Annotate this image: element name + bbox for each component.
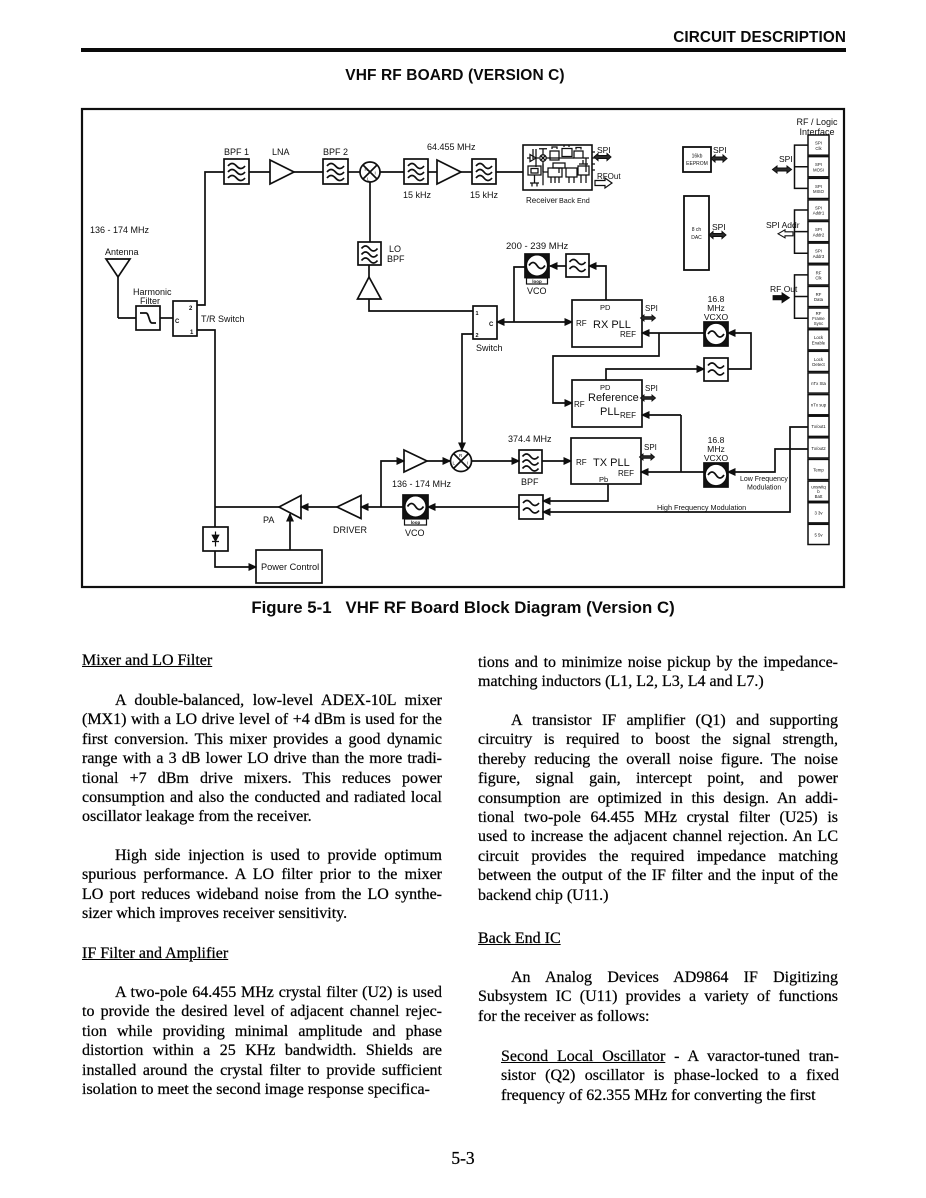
svg-text:5 5v: 5 5v [814, 532, 823, 537]
svg-text:Sync: Sync [814, 321, 824, 326]
SPI group bracket [795, 145, 809, 188]
SPI bus arrow (TX PLL) [640, 443, 657, 460]
pin nTx Sta [808, 373, 829, 393]
wire mixer MX1 to LO BPF [369, 182, 371, 242]
svg-text:VCXO: VCXO [704, 453, 729, 463]
svg-text:SPI: SPI [645, 384, 658, 393]
svg-text:REF: REF [620, 330, 636, 339]
SPI bus arrow (RX PLL) [641, 304, 658, 321]
wire REF rail junction down to TX REF [680, 415, 682, 472]
VCXO Y1 16.8 MHz (RX) [704, 322, 728, 346]
TX band-pass filter BPF3 [519, 450, 542, 487]
svg-text:VCO: VCO [405, 528, 425, 538]
svg-text:15 kHz: 15 kHz [403, 190, 432, 200]
high frequency modulation wire from Tx/out1 pin [543, 427, 808, 512]
T/R switch S1 [173, 301, 245, 336]
svg-text:BPF 1: BPF 1 [224, 147, 249, 157]
svg-text:136 - 174 MHz: 136 - 174 MHz [90, 225, 150, 235]
wire TX PLL PD to TX loop filter [543, 484, 608, 501]
PA power amplifier [263, 496, 301, 526]
pin Lock Enable [808, 330, 829, 350]
wire T/R pin2 up to BPF1 [197, 172, 224, 305]
wire Reference PLL PD to loop filter [606, 369, 704, 380]
svg-text:RF: RF [816, 270, 822, 275]
crystal filter U2 15 kHz [403, 159, 432, 200]
svg-text:R: R [459, 453, 463, 458]
RX loop filter [566, 254, 589, 277]
svg-text:Lock: Lock [814, 357, 824, 362]
RFOut arrow (receiver back end) [595, 172, 621, 188]
svg-text:Filter: Filter [140, 296, 160, 306]
band-pass filter BPF2 [323, 147, 348, 184]
wire to crystal filter U25 [461, 171, 472, 173]
EEPROM U3 [683, 147, 711, 172]
svg-text:PD: PD [600, 383, 611, 392]
wire reference loop filter to VCXO1 [728, 333, 751, 369]
svg-text:nTx sup: nTx sup [811, 403, 827, 408]
wire U25 to receiver back end [496, 171, 523, 173]
svg-text:3 3v: 3 3v [814, 511, 823, 516]
wire REF node to Reference PLL RF [553, 333, 659, 403]
pin Lock Detect [808, 351, 829, 371]
svg-text:15 kHz: 15 kHz [470, 190, 499, 200]
right column [478, 653, 838, 692]
pin Temp [808, 459, 829, 479]
svg-text:Enable: Enable [812, 341, 826, 346]
svg-text:RF / Logic: RF / Logic [796, 117, 838, 127]
svg-text:SPI: SPI [815, 162, 822, 167]
wire junction up to VCO1 [514, 267, 525, 322]
svg-text:MOSI: MOSI [813, 167, 824, 172]
svg-text:Batt: Batt [815, 494, 823, 499]
left column [82, 651, 442, 670]
pin RF Clk [808, 265, 829, 285]
svg-text:Data: Data [814, 297, 824, 302]
label 16.8 MHz VCXO (RX) [704, 294, 729, 322]
svg-text:L: L [367, 177, 370, 182]
wire mixer to 15kHz filter [380, 171, 404, 173]
svg-text:RF: RF [576, 458, 587, 467]
LO buffer amplifier [358, 277, 382, 299]
svg-text:Tx/out1: Tx/out1 [811, 424, 826, 429]
pin nTx sup [808, 395, 829, 415]
amplifier LNA [270, 147, 294, 184]
VCO1 (RX) [525, 254, 549, 296]
svg-text:LNA: LNA [272, 147, 290, 157]
DIAGRAM SVG [0, 0, 926, 600]
svg-text:C: C [175, 319, 180, 325]
wire LNA to BPF2 [294, 171, 323, 173]
SPI Addr arrow [766, 220, 800, 238]
svg-text:TX PLL: TX PLL [593, 457, 630, 469]
svg-text:C: C [489, 322, 494, 328]
wire BPF1 to LNA [249, 171, 270, 173]
svg-text:8 ch: 8 ch [692, 227, 702, 233]
power control module [256, 550, 322, 583]
IF amplifier Q1 [437, 160, 461, 184]
svg-text:PLL: PLL [600, 406, 620, 418]
detector diode CR1 [203, 527, 228, 551]
svg-text:1: 1 [476, 311, 479, 317]
pin 5.5v [808, 524, 829, 544]
wire TX mixer to BPF3 [472, 460, 520, 462]
svg-text:VCO: VCO [527, 286, 547, 296]
svg-text:LO: LO [389, 244, 401, 254]
svg-text:Tx/out2: Tx/out2 [811, 446, 826, 451]
svg-text:Detect: Detect [812, 362, 825, 367]
svg-text:64.455 MHz: 64.455 MHz [427, 142, 476, 152]
wire rail down to detector diode [214, 507, 216, 527]
TX mixer MX2 [451, 451, 472, 472]
svg-text:Receiver: Receiver [526, 196, 558, 205]
svg-text:Antenna: Antenna [105, 247, 139, 257]
wire power control to PA bias [289, 514, 291, 550]
page number [0, 1148, 926, 1169]
wire T/R pin1 down to PA line [197, 330, 215, 507]
LO band-pass filter [358, 242, 405, 265]
svg-text:I: I [467, 461, 468, 466]
wire BPF3 to TX PLL RF [542, 460, 571, 462]
wire RX PLL PD to loop filter [589, 266, 606, 300]
svg-text:SPI: SPI [645, 304, 658, 313]
svg-text:Lock: Lock [814, 335, 824, 340]
svg-text:1: 1 [190, 330, 194, 336]
svg-text:Clk: Clk [815, 146, 822, 151]
harmonic filter FL1 [133, 287, 172, 330]
wire PA to antenna rail [215, 506, 279, 508]
TX buffer amplifier [404, 450, 427, 472]
LO switch S2 [473, 306, 503, 353]
SPI bus arrow (Reference PLL) [641, 384, 658, 401]
SPI bus arrow (interface) [773, 154, 793, 173]
page title [0, 67, 910, 85]
svg-text:nTx Sta: nTx Sta [811, 381, 826, 386]
SPI bus arrow (DAC) [709, 222, 726, 239]
svg-text:BPF 2: BPF 2 [323, 147, 348, 157]
TX PLL U8 [571, 438, 641, 484]
wire driver to PA [301, 506, 337, 508]
pin SPI MOSI [808, 157, 829, 177]
wire to IF amp [428, 171, 437, 173]
TX chain: wire switch pin2 to TX mixer [462, 334, 473, 450]
wire VCO2 to driver [361, 506, 403, 508]
RF group bracket [795, 275, 809, 318]
svg-text:374.4 MHz: 374.4 MHz [508, 434, 552, 444]
svg-text:SPI: SPI [815, 205, 822, 210]
pin SPI Addr3 [808, 243, 829, 263]
svg-text:Low Frequency: Low Frequency [740, 476, 788, 483]
svg-text:16kb: 16kb [692, 154, 703, 160]
figure caption [0, 598, 926, 618]
Reference PLL U7 [572, 380, 642, 427]
svg-text:136 - 174 MHz: 136 - 174 MHz [392, 479, 452, 489]
reference loop filter [704, 358, 728, 381]
svg-text:SPI: SPI [815, 184, 822, 189]
svg-text:High Frequency Modulation: High Frequency Modulation [657, 503, 746, 512]
pin RF Frame Sync [808, 308, 829, 328]
svg-text:REF: REF [618, 469, 634, 478]
svg-text:loop: loop [532, 279, 542, 284]
RF Out arrow [770, 284, 798, 303]
pin SPI Addr2 [808, 222, 829, 242]
svg-text:DRIVER: DRIVER [333, 525, 368, 535]
RF / Logic interface header [796, 117, 838, 137]
wire VCXO2 to TX PLL REF [641, 471, 704, 473]
wire diode to power control [215, 551, 256, 567]
TX buffer amp input wire [381, 461, 404, 507]
svg-text:RF: RF [576, 319, 587, 328]
low frequency modulation wire from Tx/out2 pin [728, 449, 808, 472]
label low frequency modulation [740, 476, 788, 492]
wire BPF2 to mixer MX1 [348, 171, 360, 173]
receiver back end IC U11 [523, 145, 595, 205]
antenna ANT1 [105, 247, 139, 318]
RX PLL U6 [572, 300, 642, 347]
pin Tx/out2 [808, 438, 829, 458]
interface pin boxes column [808, 135, 829, 545]
svg-text:T/R Switch: T/R Switch [201, 314, 245, 324]
pin SPI Addr1 [808, 200, 829, 220]
svg-text:PD: PD [600, 303, 611, 312]
svg-text:SPI: SPI [779, 154, 793, 164]
pin 3.3v [808, 503, 829, 523]
svg-text:RF: RF [816, 292, 822, 297]
pin Tx/out1 [808, 416, 829, 436]
svg-text:RF Out: RF Out [770, 284, 798, 294]
wire Reference PLL REF input [642, 414, 681, 416]
header rule [81, 48, 846, 52]
wire antenna to harmonic filter [118, 317, 136, 319]
wire amp to TX mixer [427, 460, 450, 462]
svg-text:SPI: SPI [597, 145, 611, 155]
svg-text:SPI: SPI [712, 222, 726, 232]
pin SPI Clk [808, 135, 829, 155]
svg-text:Temp: Temp [813, 467, 824, 472]
band-pass filter BPF1 [224, 147, 249, 184]
wire harmonic filter to T/R switch [160, 317, 173, 319]
pin SPI MISO [808, 178, 829, 198]
svg-text:Addr2: Addr2 [813, 232, 825, 237]
svg-text:RFOut: RFOut [597, 172, 621, 181]
svg-text:SPI: SPI [815, 249, 822, 254]
svg-text:Clk: Clk [815, 276, 822, 281]
wire TX loop filter to VCO2 [428, 506, 519, 508]
svg-text:SPI: SPI [713, 145, 727, 155]
svg-text:loop: loop [411, 520, 421, 525]
svg-text:REF: REF [620, 411, 636, 420]
svg-text:2: 2 [189, 306, 193, 312]
wire LO BPF to LO buffer amp [368, 265, 370, 277]
svg-text:200 - 239 MHz: 200 - 239 MHz [506, 241, 569, 252]
VCXO Y2 16.8 MHz (TX) [704, 463, 728, 487]
svg-text:I: I [375, 171, 376, 176]
svg-text:Back End: Back End [559, 196, 590, 205]
crystal filter U25 15 kHz [470, 159, 499, 200]
svg-text:Reference: Reference [588, 392, 639, 404]
svg-text:L: L [453, 461, 456, 466]
svg-text:Power Control: Power Control [261, 562, 319, 572]
svg-text:SPI: SPI [644, 443, 657, 452]
wire loop filter to VCO1 [550, 265, 566, 267]
svg-text:BPF: BPF [521, 477, 539, 487]
wire LO amp to LO switch pin1 [369, 299, 473, 311]
TX loop filter [519, 495, 543, 519]
VCO2 (TX) [403, 495, 428, 538]
pin unswitched batt [808, 481, 829, 501]
wire VCXO1 to RX PLL REF [642, 332, 704, 334]
svg-text:SPI Addr: SPI Addr [766, 220, 800, 230]
svg-text:Modulation: Modulation [747, 485, 781, 492]
svg-text:Addr1: Addr1 [813, 211, 825, 216]
svg-text:SPI: SPI [815, 141, 822, 146]
SPI bus arrow (receiver back end) [594, 145, 611, 161]
SPI Addr group bracket [795, 210, 809, 253]
svg-text:Addr3: Addr3 [813, 254, 825, 259]
svg-text:VCXO: VCXO [704, 312, 729, 322]
svg-text:RF: RF [574, 400, 585, 409]
svg-text:BPF: BPF [387, 254, 405, 264]
svg-text:PA: PA [263, 515, 274, 525]
page header: CIRCUIT DESCRIPTION [0, 29, 846, 47]
diagram frame [82, 109, 844, 587]
driver amplifier [333, 496, 368, 536]
svg-text:Switch: Switch [476, 343, 503, 353]
svg-text:2: 2 [476, 333, 479, 339]
svg-text:MISO: MISO [813, 189, 825, 194]
mixer MX1 [360, 162, 380, 182]
svg-text:DAC: DAC [691, 235, 702, 241]
DAC U4 8ch [684, 196, 709, 270]
svg-text:EEPROM: EEPROM [686, 161, 708, 167]
svg-text:SPI: SPI [815, 227, 822, 232]
svg-text:Pb: Pb [599, 475, 608, 484]
label 16.8 MHz VCXO (TX) [704, 435, 729, 463]
wire LO switch C to RX PLL RF with junction to VCO1 [497, 321, 572, 323]
SPI bus arrow (EEPROM) [711, 145, 727, 162]
pin RF Data [808, 286, 829, 306]
